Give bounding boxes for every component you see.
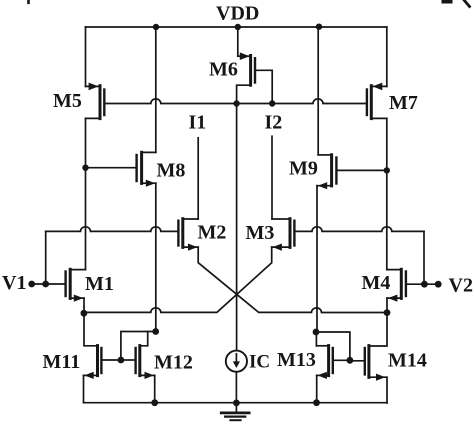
node: M11/M12 shared gate	[118, 357, 125, 364]
wire: M4 gate lead to V2	[406, 283, 438, 285]
node: rail junction at left-inner column	[153, 24, 159, 30]
transistor M6 (PMOS)	[237, 52, 273, 103]
wire: V1 lead to M1 gate	[32, 283, 65, 285]
svg-text:M6: M6	[209, 59, 238, 81]
node: rail junction at right-inner column	[316, 24, 322, 30]
wire: left outer column, rail down to M5 source	[85, 27, 87, 86]
wire: M3 source diagonal to left cross line with hop over left inner column	[84, 247, 272, 312]
node: M13/M14 shared gate	[347, 357, 354, 364]
node: V1 riser junction	[42, 281, 49, 288]
wire: right outer column, M7 drain down to M4 drain	[386, 118, 388, 269]
transistor M4 (NMOS input)	[387, 269, 406, 301]
svg-text:M2: M2	[198, 222, 227, 244]
ground	[221, 403, 249, 420]
transistor M7 (PMOS)	[367, 83, 387, 119]
node: M1 source / left cross line junction	[81, 310, 88, 317]
wire: V2 riser	[423, 231, 425, 284]
stray scan mark top-right (cut-off text)	[444, 0, 451, 4]
svg-text:I1: I1	[189, 112, 207, 134]
svg-text:M7: M7	[389, 92, 418, 114]
transistor M5 (PMOS)	[86, 83, 105, 119]
transistor M14 (NMOS)	[350, 346, 387, 403]
wire: gate line V1 to M2 gate, hops over left columns	[46, 227, 178, 232]
wire: right outer column, rail down to M7 source	[386, 27, 388, 86]
node: M13 drain / gates / right inner column	[313, 329, 320, 336]
svg-text:M13: M13	[277, 349, 316, 371]
transistor M2 (NMOS, cross-coupled pair)	[178, 219, 198, 251]
svg-text:M14: M14	[388, 350, 427, 372]
svg-text:M11: M11	[43, 351, 81, 373]
node: rail junction at center column	[235, 24, 241, 30]
node: M6 drain on gate bus	[233, 100, 239, 106]
svg-text:IC: IC	[249, 352, 270, 373]
node: M9 gate on right outer column	[384, 167, 390, 173]
svg-text:I2: I2	[265, 112, 283, 134]
svg-text:M9: M9	[289, 158, 318, 180]
wire: M2 source diagonal to right cross line with hop over right inner column	[198, 247, 387, 312]
stray scan mark top-left	[27, 0, 30, 3]
wire: center column, gate bus node down to IC	[236, 104, 238, 351]
wire: right inner column from node down to M13 drain lead	[315, 332, 317, 346]
svg-text:VDD: VDD	[216, 3, 259, 25]
wire: right inner column, M9 source down to M13 drain node	[316, 186, 318, 332]
wire: left outer column, M5 drain down to M1 drain	[85, 118, 87, 269]
svg-text:V1: V1	[2, 272, 26, 294]
svg-text:M5: M5	[53, 90, 82, 112]
node: M13 source on ground rail	[313, 399, 320, 406]
wire: V1 riser	[45, 231, 47, 284]
node: M8 gate on left outer column	[82, 165, 88, 171]
wire: VDD top rail	[86, 26, 387, 28]
svg-text:M1: M1	[85, 273, 114, 295]
svg-text:M4: M4	[362, 272, 391, 294]
wire: ground rail	[84, 402, 388, 404]
node: V2 riser junction	[421, 281, 428, 288]
node: M12 drain / gates / left inner column	[152, 328, 159, 335]
node: M4 source / right cross line junction	[384, 309, 391, 316]
wire: M1 source down to cross node	[83, 298, 85, 313]
node: M12 source on ground rail	[151, 399, 158, 406]
transistor M9 (NMOS)	[317, 155, 387, 190]
transistor M13 (NMOS diode-connected)	[316, 346, 350, 403]
wire: left inner column, rail down to M8 drain	[155, 27, 157, 152]
transistor M3 (NMOS, cross-coupled pair)	[272, 219, 295, 251]
wire: right column down to M14 drain	[369, 313, 387, 346]
wire: I2 branch stub down to M3 drain	[271, 136, 273, 219]
transistor M8 (NMOS)	[86, 152, 156, 187]
node: V2 terminal	[435, 281, 442, 288]
wire: left inner column, M8 source down to M12 drain node	[155, 183, 157, 331]
wire: left column down to M11 drain	[84, 313, 98, 346]
svg-text:V2: V2	[449, 275, 473, 297]
wire: I1 branch stub down to M2 drain	[197, 138, 199, 219]
node: M6 gate on gate bus	[269, 100, 275, 106]
wire: gate bus M5-M6-M7 with hops over inner columns	[105, 99, 367, 104]
wire: gate line M3 gate to V2 corner, hops over right columns	[295, 227, 424, 232]
transistor M12 (NMOS diode-connected)	[121, 332, 155, 403]
node: V1 terminal	[28, 281, 35, 288]
svg-text:M3: M3	[246, 222, 275, 244]
wire: M4 source down to cross node	[386, 298, 388, 313]
node: IC on ground rail	[233, 400, 240, 407]
transistor M11 (NMOS)	[84, 346, 121, 403]
wire: center column, rail down to M6 source	[237, 27, 239, 56]
svg-text:M8: M8	[157, 160, 186, 182]
current source IC	[226, 351, 247, 372]
wire: IC down to ground rail	[235, 372, 237, 403]
wire: gate U-connector up to M12 drain node	[121, 332, 156, 361]
transistor M1 (NMOS input)	[66, 269, 86, 301]
wire: right inner column, rail down to M9 drain	[317, 27, 319, 155]
svg-text:M12: M12	[154, 352, 193, 374]
wire: gate U-connector from M13 drain node	[316, 332, 350, 360]
